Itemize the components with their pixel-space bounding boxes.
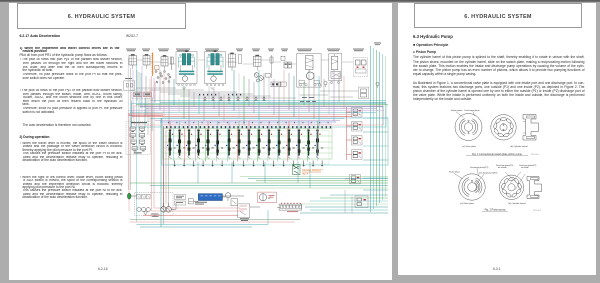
hose line xyxy=(271,55,273,78)
fig1 cylinder barrel xyxy=(491,115,516,140)
bus frame xyxy=(132,104,387,128)
pilot manifold xyxy=(126,122,151,155)
valve port labels xyxy=(166,126,167,128)
pump housing (dashed) xyxy=(135,192,174,215)
return line nest xyxy=(130,182,388,184)
fig1 cylinder barrel section xyxy=(523,115,539,141)
svg-text:Discharge plane: Discharge plane xyxy=(465,109,481,112)
hydraulic schematic drawing xyxy=(9,3,392,280)
travel motor left xyxy=(176,52,197,84)
arm cylinder xyxy=(254,56,262,66)
remote control valve xyxy=(353,58,367,77)
fig2 valve plate xyxy=(459,174,485,200)
left page xyxy=(9,3,392,280)
pilot supply hose (orange) xyxy=(152,53,154,77)
svg-text:(b) Cylinder barrel: (b) Cylinder barrel xyxy=(510,145,528,148)
svg-text:W2G2-H01: W2G2-H01 xyxy=(531,154,539,156)
svg-text:on outside: on outside xyxy=(498,166,507,169)
misc port labels xyxy=(374,42,381,45)
thin element xyxy=(238,55,242,64)
boom cylinder with holding valve xyxy=(329,54,342,81)
accumulator (red box) xyxy=(258,192,277,203)
top dark bar xyxy=(0,0,600,3)
load check valves row xyxy=(204,97,206,99)
riser lines to bus xyxy=(136,70,138,101)
pump unit label xyxy=(151,214,160,217)
pilot filter block xyxy=(175,195,186,200)
aux red riser xyxy=(346,107,348,160)
inter-block connectors xyxy=(136,59,143,61)
svg-text:(a) Valve plate: (a) Valve plate xyxy=(462,145,477,148)
swing motor xyxy=(297,54,322,88)
svg-text:Fig. 1 Conventional swash plat: Fig. 1 Conventional swash plate piston p… xyxy=(472,153,522,156)
svg-text:on inside: on inside xyxy=(521,167,529,169)
svg-text:Intake plane: Intake plane xyxy=(451,109,463,112)
pilot check block xyxy=(271,82,281,87)
suction filter and tank xyxy=(144,212,148,216)
svg-text:Discharge plane(P1): Discharge plane(P1) xyxy=(470,167,489,169)
bucket cylinder rod xyxy=(171,57,173,70)
check valve small xyxy=(281,56,285,60)
pump pressure lines xyxy=(163,126,165,206)
svg-text:TRAVEL PRIORITY: TRAVEL PRIORITY xyxy=(302,169,323,172)
main control valve body xyxy=(163,129,332,160)
right margin branch lines xyxy=(363,117,388,119)
travel motor right xyxy=(205,52,226,84)
pilot relief valve xyxy=(238,204,250,218)
valve band outer frame xyxy=(162,118,388,165)
boom swing cylinder xyxy=(129,56,137,66)
interconnect lines mid xyxy=(136,87,176,89)
dozer cylinder xyxy=(161,57,168,67)
bottom right valve xyxy=(355,196,368,208)
pilot pressure loop (pink) xyxy=(151,76,153,211)
travel priority valve + label xyxy=(293,165,301,175)
gauge valve trio xyxy=(137,194,141,199)
blade cylinder xyxy=(143,56,150,66)
pressure switches xyxy=(324,81,327,84)
shockless valve xyxy=(359,87,369,99)
valve to tank drops xyxy=(197,162,199,183)
pilot lines through valve xyxy=(173,129,175,162)
pressure switches Pt/Ni xyxy=(132,90,154,99)
right margin return lines xyxy=(370,46,372,212)
svg-text:Fig. 2 Piston pump: Fig. 2 Piston pump xyxy=(485,209,506,212)
orifice block xyxy=(231,199,238,206)
left wiring xyxy=(130,68,132,190)
swing brake valve pair xyxy=(284,62,287,68)
right page xyxy=(398,3,596,275)
svg-text:W2G2-7: W2G2-7 xyxy=(126,34,138,38)
control valve spools xyxy=(169,132,171,156)
drain loop (cyan) xyxy=(137,224,269,226)
svg-text:VALVE: VALVE xyxy=(302,172,309,175)
pressure switch Pi xyxy=(225,193,230,198)
svg-text:Discharge plane(P2): Discharge plane(P2) xyxy=(479,173,498,175)
pump figures drawing xyxy=(398,3,596,275)
relief cylinder A xyxy=(229,54,236,67)
svg-text:Intake plane: Intake plane xyxy=(449,171,461,174)
svg-text:W2G2-H02: W2G2-H02 xyxy=(533,210,541,212)
bottom right return piping xyxy=(305,206,388,208)
multi control valve xyxy=(279,204,302,210)
travel port labels xyxy=(199,94,200,96)
pump discharge lines xyxy=(131,195,137,197)
teal drop xyxy=(151,97,153,131)
frame line left xyxy=(127,58,129,190)
port block A xyxy=(124,81,135,91)
frame verticals xyxy=(160,118,162,227)
fig2 cylinder barrel xyxy=(499,175,523,199)
piston pumps P1 P2 xyxy=(137,207,141,211)
auxiliary valve stack (right column) xyxy=(352,108,363,118)
fig2 cylinder barrel section xyxy=(527,177,542,199)
electric motor xyxy=(127,193,131,199)
component name labels xyxy=(126,48,136,51)
pilot signal bus lines xyxy=(150,100,386,102)
center joint (swivel) xyxy=(254,73,259,78)
shuttle valve cluster xyxy=(155,66,159,70)
svg-text:(a) Valve plate: (a) Valve plate xyxy=(460,202,475,205)
fig1 valve plate xyxy=(455,114,482,141)
svg-text:(b) Cylinder barrel: (b) Cylinder barrel xyxy=(508,202,526,205)
solenoid valve block (blue) xyxy=(198,194,222,201)
check valve pump xyxy=(188,199,193,204)
